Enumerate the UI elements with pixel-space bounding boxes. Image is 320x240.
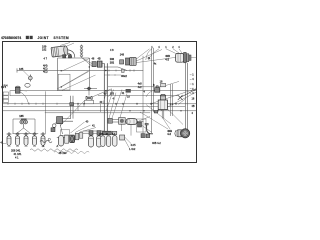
pipe nut a [89, 131, 93, 136]
pipe nut b [97, 131, 101, 136]
small tee part [120, 135, 125, 140]
pipe base flange [103, 131, 112, 135]
arrow cluster pipe end [178, 89, 197, 100]
leaders from tee [125, 137, 131, 148]
bottom capsule 4 [32, 132, 37, 145]
valve block dark [65, 135, 69, 143]
station line ticks [8, 103, 176, 105]
leader from union [93, 89, 112, 97]
bottom capsule 3 [23, 132, 28, 145]
coupling rings [20, 120, 24, 124]
vertical leader x143 [142, 56, 144, 134]
canister cap [160, 95, 165, 100]
connector x10 [9, 91, 11, 96]
svg-text:40x2: 40x2 [121, 74, 127, 78]
tick at pipe start [16, 69, 18, 73]
connector to pipe [102, 63, 104, 65]
hanging capsule b [97, 136, 102, 147]
drain circle [52, 124, 56, 128]
extra leaders right-center [140, 105, 171, 130]
leader above cylinder [60, 43, 74, 47]
svg-text:185: 185 [19, 114, 24, 118]
svg-text:4B: 4B [192, 105, 195, 108]
svg-text:163: 163 [110, 92, 115, 95]
bc capsule 2 [106, 136, 110, 147]
horizontal accumulator [126, 119, 137, 125]
fitting block a [92, 62, 96, 67]
leader to union [60, 101, 85, 127]
fan leaders to elbow cluster [103, 90, 127, 119]
left margin legend boxes [3, 92, 8, 95]
small box on y70 line [122, 69, 125, 72]
bottom center capsule [57, 136, 65, 138]
small part [120, 60, 124, 64]
vertical double leader x152 [152, 48, 154, 133]
small valve fitting [28, 76, 32, 80]
svg-text:4 8: 4 8 [110, 49, 114, 52]
y70 ticks [109, 69, 134, 71]
short vertical x100 [100, 104, 102, 112]
bc capsule 3 [113, 136, 117, 147]
valve cross marks [70, 135, 74, 142]
right joint body [176, 53, 184, 62]
hose clamp [48, 138, 50, 140]
leaders ring stack to fittings [82, 58, 92, 66]
coupling top bar [21, 118, 27, 120]
light line y75 [105, 74, 122, 76]
junction dots [77, 70, 181, 112]
small fitting under canister [154, 110, 158, 113]
svg-text:4B 190: 4B 190 [59, 152, 68, 155]
motor gear [181, 129, 190, 138]
ring gasket [25, 83, 30, 87]
elbow part cluster mid [108, 118, 112, 123]
svg-text:4B: 4B [98, 57, 101, 60]
motor bracket [175, 130, 176, 136]
dark label blob [126, 89, 131, 93]
inner box [58, 74, 70, 90]
svg-text:1.4x2: 1.4x2 [129, 147, 136, 151]
pipe to elbow [112, 120, 118, 122]
leader arcs from labels [146, 49, 159, 60]
svg-text:JOINT: JOINT [38, 36, 49, 40]
J hook tube [145, 123, 148, 125]
hose wavy upper [40, 140, 52, 143]
svg-text:4-2: 4-2 [165, 58, 169, 61]
diagonal leader left [57, 71, 88, 89]
elbow drop [60, 124, 63, 134]
diagonal leaders right [150, 89, 196, 111]
fitting block b [97, 61, 102, 67]
right joint flanges [184, 52, 187, 62]
connectors x78 x84 [78, 104, 84, 111]
left dark plug [15, 86, 20, 89]
svg-text:358 341: 358 341 [11, 148, 21, 152]
hex fitting right [155, 88, 160, 93]
cylinder assembly body [51, 46, 68, 58]
svg-text:181: 181 [110, 61, 115, 65]
canister stem [162, 110, 164, 119]
vertical pipes right x186 [185, 63, 187, 129]
hose wavy long [30, 149, 78, 151]
trestle legs [17, 128, 31, 134]
svg-text:4.05: 4.05 [131, 143, 137, 147]
union base box [85, 100, 94, 103]
bolt dots [170, 103, 172, 105]
bottom capsule 2 [15, 132, 20, 145]
svg-text:182: 182 [42, 48, 47, 52]
main vertical pipe [104, 64, 107, 132]
sub box left [137, 119, 147, 132]
svg-text:4 1: 4 1 [15, 156, 19, 159]
canister leaders [163, 109, 183, 130]
base part [161, 83, 166, 86]
svg-text:41 181: 41 181 [14, 152, 22, 156]
junction dots tank [61, 70, 62, 71]
horizontal line y113 [45, 112, 150, 114]
dark elbow fitting [57, 117, 63, 124]
svg-text:47035800074: 47035800074 [1, 36, 21, 40]
pipe horizontal y70 [17, 70, 143, 72]
inner diagonals [61, 58, 95, 90]
bottom capsule 1 [6, 132, 11, 145]
left riser pipes [71, 96, 73, 119]
cylinder elbow pipe [68, 50, 75, 58]
motor coupling [177, 130, 183, 137]
canister body [158, 100, 167, 110]
leader from plug [20, 90, 27, 93]
pipe caps on tank top [63, 55, 66, 58]
hook nuts [141, 134, 145, 138]
capsule bottom ticks [8, 146, 45, 148]
accumulator outlet [137, 121, 143, 123]
horizontal line y95 [10, 95, 178, 97]
svg-text:4x2: 4x2 [138, 86, 143, 89]
bottom capsule 5 [40, 132, 45, 145]
CJK title [26, 36, 29, 39]
leader to motor [139, 117, 152, 133]
flanged cylinder center [126, 58, 130, 65]
drop lines to bottom row [122, 124, 132, 135]
svg-text:13 4: 13 4 [1, 85, 7, 89]
pipe pair right of valve [83, 131, 104, 133]
drain fitting dark [51, 128, 55, 132]
large tank box [58, 58, 90, 91]
base diagonal [166, 81, 179, 85]
svg-text:182: 182 [110, 57, 115, 61]
horizontal line y90 [10, 90, 197, 92]
joint to frame tick [191, 57, 196, 59]
svg-text:4-2: 4-2 [167, 132, 171, 136]
hose wavy lower2 [54, 151, 89, 153]
vertical leader x45 [45, 92, 47, 134]
union diamond [87, 87, 91, 90]
base line right [108, 86, 162, 88]
support trestle [13, 119, 39, 134]
svg-text:4(1): 4(1) [43, 70, 48, 73]
leaders from center part [136, 49, 175, 63]
ring stack column [81, 45, 83, 58]
svg-text:4 7: 4 7 [44, 57, 48, 60]
station line y104 [3, 103, 197, 105]
coupling stem [23, 124, 25, 128]
svg-text:185: 185 [19, 67, 24, 71]
svg-text:148: 148 [120, 53, 125, 56]
horizontal line y111 [3, 110, 197, 112]
vertical pair right mid [170, 84, 172, 116]
union knot dark [86, 96, 92, 99]
leader to fitting [24, 71, 29, 76]
horizontal line y106 [3, 106, 185, 108]
svg-text:40B 4-2: 40B 4-2 [152, 142, 161, 145]
pipe branch to y70 line [105, 67, 128, 71]
elbow to left [60, 119, 74, 122]
leaders up from valve [71, 122, 97, 133]
svg-text:SYSTEM: SYSTEM [54, 36, 70, 40]
hanging capsule a [89, 136, 94, 147]
